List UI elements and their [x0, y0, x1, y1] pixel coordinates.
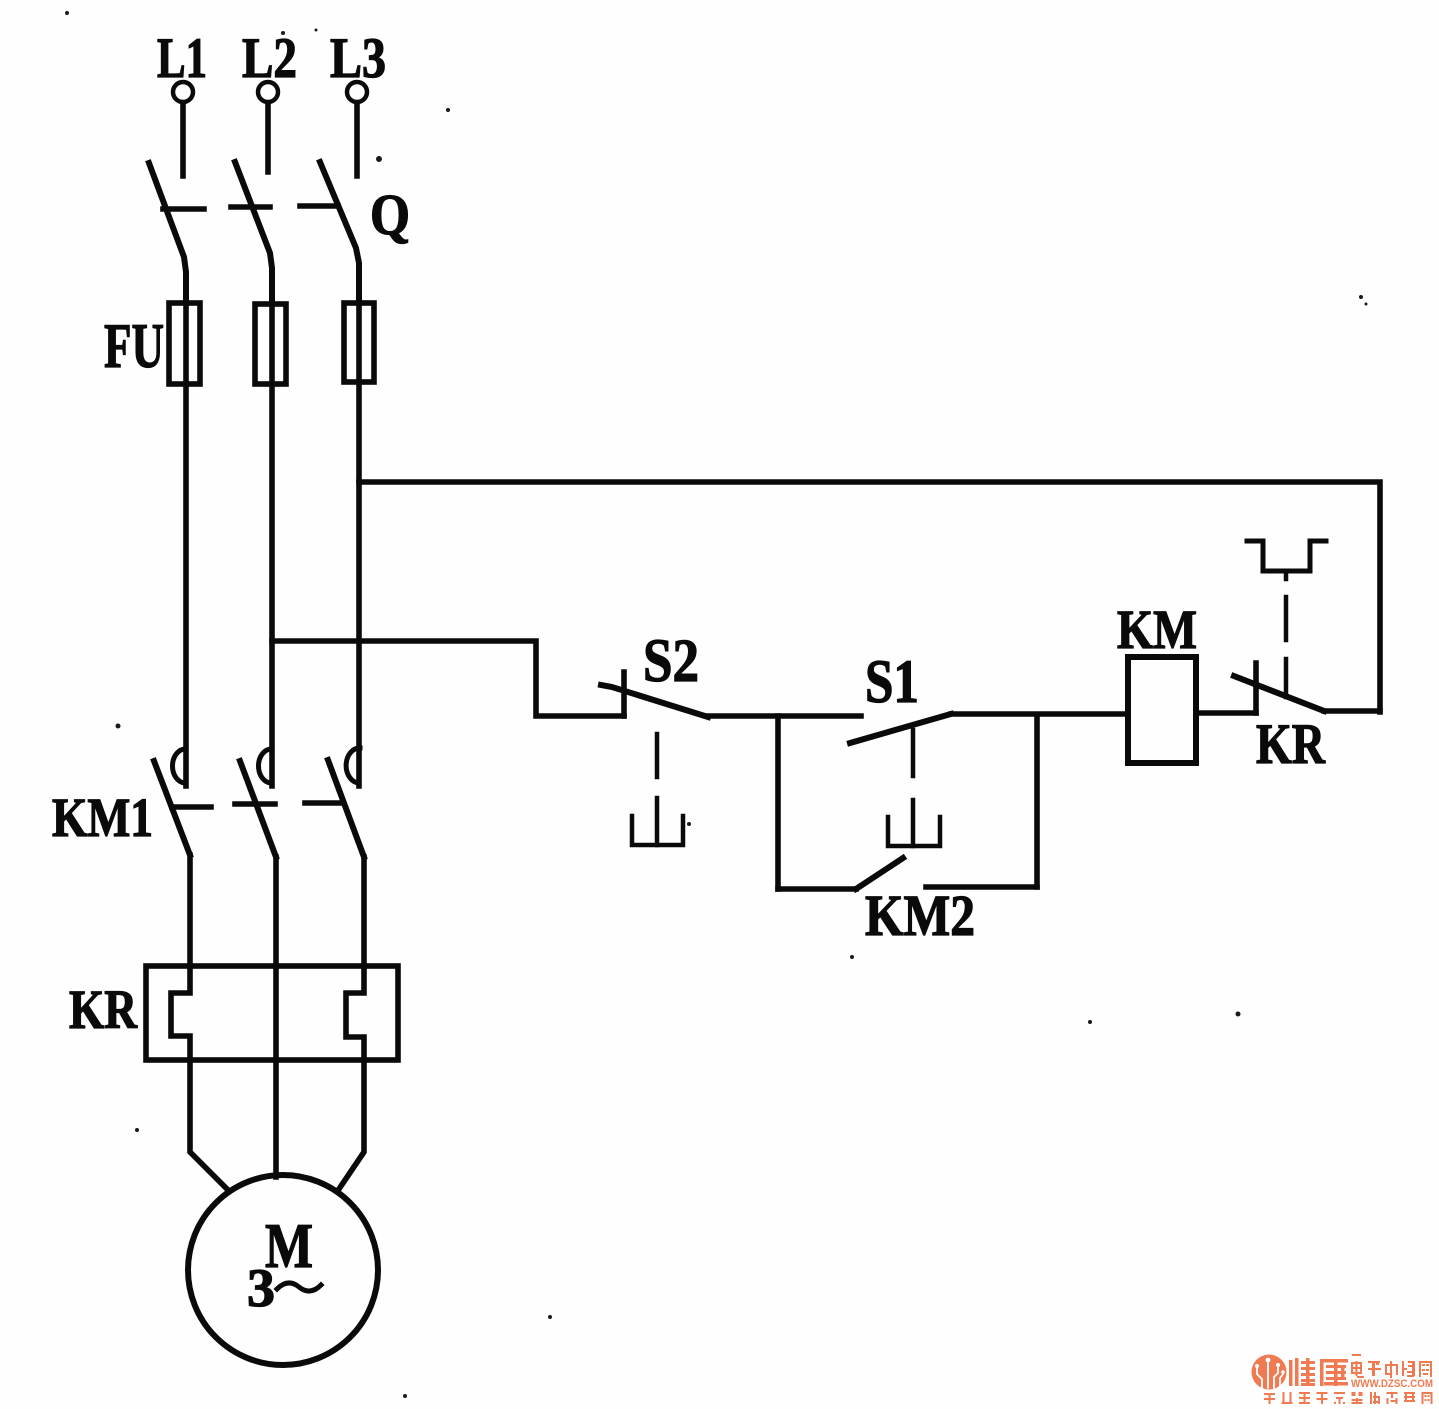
terminal L3: [347, 82, 367, 102]
contactor KM1 pole 1 arc: [172, 749, 186, 783]
fuse FU1 body: [169, 303, 200, 384]
button S1 actuator dash: [911, 730, 916, 776]
fuse FU3 body: [344, 303, 374, 382]
svg-text:3: 3: [247, 1258, 275, 1318]
button S2 actuator dash: [655, 734, 660, 777]
thermal contact KR actuator dash 1: [1284, 597, 1289, 640]
contactor KM1 pole 3 blade: [328, 760, 364, 857]
wire KR to motor phase1: [190, 1060, 228, 1190]
wire L1 stub: [180, 103, 186, 176]
svg-text:Q: Q: [370, 182, 410, 247]
thermal contact KR actuator bracket: [1247, 541, 1326, 571]
switch Q pole 1 tick: [163, 206, 204, 212]
fuse FU2 body: [255, 304, 286, 384]
svg-text:S1: S1: [865, 649, 919, 716]
svg-text:KM1: KM1: [52, 787, 153, 848]
wire KM2 branch bottom left: [778, 886, 856, 892]
contactor KM1 pole 2 tick: [235, 801, 275, 807]
wire L2 stub: [265, 103, 271, 172]
switch Q pole 2 blade: [235, 162, 272, 304]
logo char wei: [1289, 1358, 1315, 1386]
logo char ku: [1320, 1359, 1348, 1386]
wire KR to motor phase2: [273, 1060, 279, 1177]
contactor KM1 pole 3 tick: [305, 800, 343, 806]
contactor KM1 pole 1 tick: [172, 804, 211, 810]
terminal L2: [258, 82, 278, 102]
contactor KM1 pole 3 arc: [346, 748, 360, 783]
svg-text:WWW.DZSC.COM: WWW.DZSC.COM: [1351, 1378, 1433, 1390]
logo small chars: [1351, 1361, 1432, 1378]
wire KM coil to KR contact: [1196, 710, 1256, 716]
wire KM1 pole3 to KR: [361, 857, 367, 966]
switch Q pole 3 blade: [320, 162, 359, 303]
button S1 actuator cap: [888, 817, 940, 846]
logo icon circle: [1252, 1355, 1287, 1390]
svg-text:S2: S2: [643, 628, 699, 695]
svg-text:KR: KR: [69, 979, 138, 1040]
wire L3 stub: [354, 103, 360, 176]
thermal contact KR actuator dash 2: [1284, 659, 1289, 697]
button S1 blade: [850, 714, 951, 743]
wire S1 to KM coil: [951, 711, 1128, 717]
motor tilde: [277, 1283, 321, 1291]
button S2 post: [621, 672, 627, 716]
thermal contact KR blade: [1234, 676, 1324, 711]
watermark logo dzsc: [1252, 1354, 1434, 1404]
button S1 actuator stem: [911, 800, 916, 846]
thermal relay KR heater 1: [171, 966, 190, 1060]
contactor KM1 pole 2 blade: [240, 761, 276, 857]
wire KM2 branch left: [775, 716, 781, 889]
logo slogan: [1264, 1392, 1433, 1404]
coil KM body: [1128, 657, 1196, 763]
motor M circle: [188, 1175, 378, 1365]
button S2 actuator stem: [655, 798, 660, 845]
thermal relay KR box: [146, 966, 398, 1060]
button S2 blade: [601, 685, 708, 717]
switch Q pole 3 tick: [300, 203, 338, 209]
wire control feed top from L3 line: [359, 482, 1380, 712]
thermal relay KR heater 3: [346, 966, 364, 1060]
wire KM1 pole1 to KR: [187, 855, 193, 966]
wire control feed mid from L2 line: [272, 641, 624, 716]
wire KM1 pole2 to KR: [273, 857, 279, 966]
contact KM2 blade: [856, 858, 903, 889]
fuse FU2 through wire: [269, 304, 275, 786]
svg-text:KR: KR: [1256, 713, 1326, 776]
svg-text:FU: FU: [104, 311, 164, 381]
wire KR to motor phase3: [339, 1060, 364, 1189]
svg-text:KM2: KM2: [865, 883, 975, 948]
switch Q pole 1 blade: [149, 163, 186, 303]
thermal contact KR post: [1253, 663, 1259, 713]
fuse FU3 through wire: [356, 303, 362, 786]
logo TM: [1352, 1354, 1361, 1356]
terminal L1: [173, 82, 193, 102]
wire KM2 branch right: [1034, 716, 1040, 887]
svg-text:KM: KM: [1117, 599, 1197, 660]
wire KM2 branch bottom right: [926, 884, 1037, 890]
wire phase2 through KR: [273, 966, 279, 1060]
wire S2 to S1: [708, 713, 861, 719]
switch Q pole 2 tick: [231, 204, 270, 210]
button S2 actuator cap: [632, 816, 683, 845]
fuse FU1 through wire: [183, 303, 189, 786]
wire KR contact to corner: [1324, 708, 1380, 714]
contactor KM1 pole 2 arc: [258, 749, 272, 783]
contactor KM1 pole 1 blade: [154, 761, 190, 855]
thermal contact KR actuator notch: [1284, 571, 1289, 579]
